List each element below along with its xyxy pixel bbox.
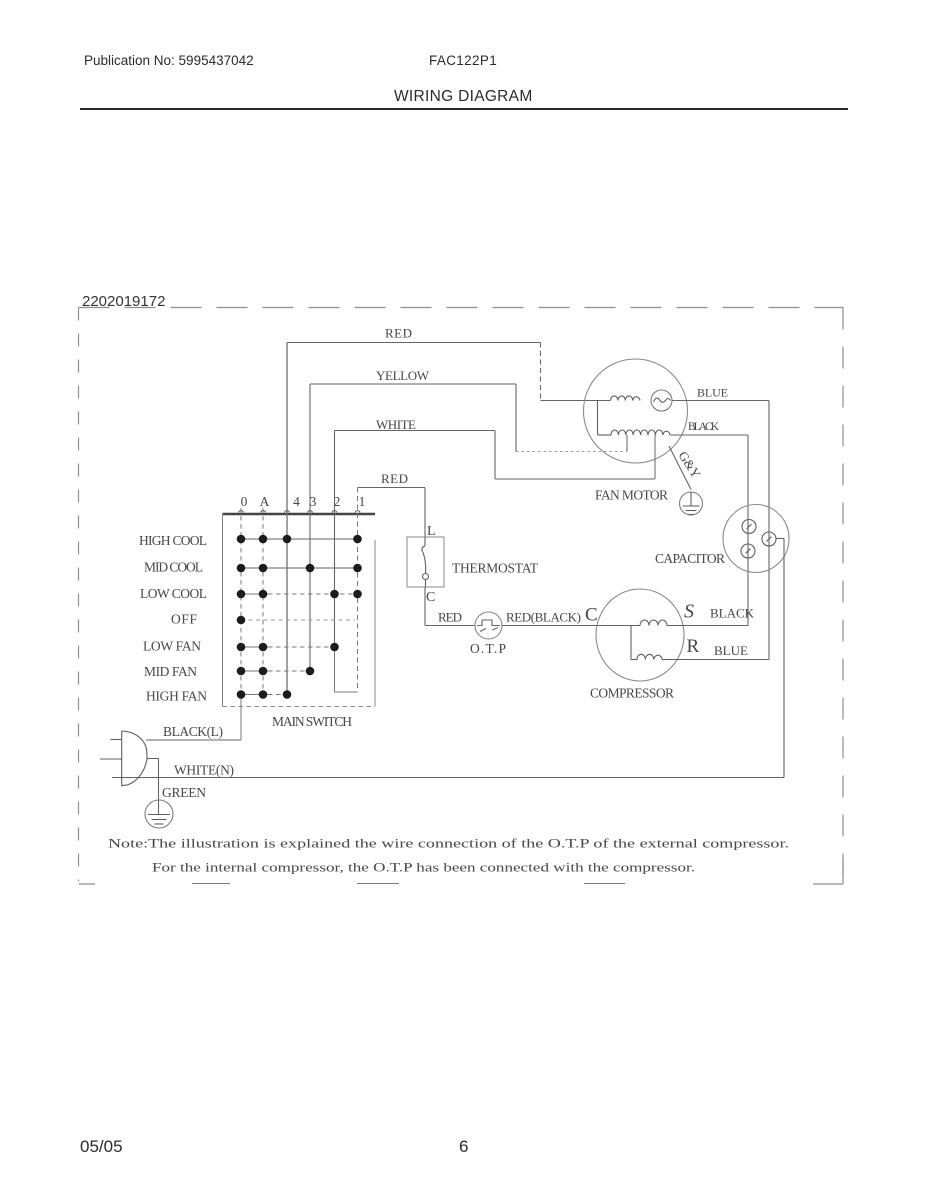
svg-text:GREEN: GREEN — [162, 785, 206, 800]
row label OFF — [171, 612, 197, 627]
svg-text:RED: RED — [385, 326, 412, 341]
row wire LOW FAN — [241, 646, 335, 648]
svg-text:S: S — [684, 601, 694, 623]
wire BLACK(L) plug to switch — [146, 739, 241, 741]
label FAN MOTOR — [595, 488, 668, 503]
fan motor mid-speed tap wire — [626, 435, 628, 452]
thermostat box — [407, 537, 444, 587]
row wire OFF — [241, 619, 355, 621]
switch contact dots — [237, 535, 362, 699]
supply earth ground — [145, 800, 173, 828]
compressor body — [596, 589, 684, 681]
svg-text:BLUE: BLUE — [697, 386, 728, 400]
switch column wire 0 — [240, 508, 242, 740]
label YELLOW — [376, 368, 430, 383]
label O.T.P — [470, 641, 506, 656]
wire compressor S BLACK to capacitor — [685, 435, 748, 626]
label WHITE — [376, 417, 416, 432]
main switch label — [272, 714, 352, 729]
row wire HIGH FAN — [241, 694, 287, 696]
label WHITE(N) — [174, 763, 234, 778]
svg-text:L: L — [427, 524, 436, 539]
thermostat terminal label C — [426, 590, 435, 605]
wire joining bottoms of columns 2 and 1 — [335, 647, 358, 692]
switch column wire 4 / RED riser — [286, 343, 288, 696]
note text line 2 — [152, 860, 695, 875]
wire fan BLUE to capacitor — [672, 400, 769, 402]
diagram dashed border top — [79, 307, 844, 309]
fan motor earth ground — [680, 492, 703, 515]
svg-text:BLUE: BLUE — [714, 643, 748, 658]
fan motor thermal protector — [651, 390, 672, 411]
header model number — [429, 53, 497, 68]
compressor terminal label R — [687, 636, 700, 657]
svg-text:FAN MOTOR: FAN MOTOR — [595, 488, 668, 503]
svg-text:LOW COOL: LOW COOL — [140, 586, 207, 601]
svg-text:C: C — [585, 605, 598, 626]
fan motor low-speed tap wire — [654, 435, 656, 479]
note underline O.T.P — [357, 883, 399, 885]
label BLUE (compressor R) — [714, 643, 748, 658]
wire RED (to fan motor common) — [287, 343, 611, 401]
svg-text:For the internal compressor, t: For the internal compressor, the O.T.P h… — [152, 860, 695, 875]
switch column wire A — [262, 508, 264, 695]
compressor windings — [631, 620, 685, 659]
svg-text:WHITE: WHITE — [376, 417, 416, 432]
svg-text:CAPACITOR: CAPACITOR — [655, 551, 725, 566]
column label 4 — [293, 494, 300, 509]
svg-text:0: 0 — [241, 494, 248, 509]
compressor terminal label S — [684, 601, 694, 623]
svg-text:LOW FAN: LOW FAN — [143, 639, 201, 654]
row label LOW COOL — [140, 586, 207, 601]
wire thermostat C to O.T.P (RED) — [425, 587, 476, 626]
wire neutral riser — [783, 539, 785, 778]
label BLACK(L) — [163, 724, 223, 739]
note underline internal — [192, 883, 230, 885]
svg-text:C: C — [426, 590, 435, 605]
part number 2202019172 — [82, 293, 165, 310]
svg-text:G&Y: G&Y — [675, 448, 704, 481]
label BLUE (fan) — [697, 386, 728, 400]
wire G&amp;Y fan earth lead — [669, 446, 691, 490]
row label MID COOL — [144, 560, 203, 575]
capacitor terminal (fan) — [742, 520, 756, 534]
svg-text:MAIN SWITCH: MAIN SWITCH — [272, 714, 352, 729]
svg-text:THERMOSTAT: THERMOSTAT — [452, 561, 539, 576]
label COMPRESSOR — [590, 686, 674, 701]
fan motor windings — [598, 396, 671, 435]
svg-text:MID COOL: MID COOL — [144, 560, 203, 575]
svg-text:RED(BLACK): RED(BLACK) — [506, 610, 581, 625]
svg-text:MID FAN: MID FAN — [144, 664, 197, 679]
svg-text:YELLOW: YELLOW — [376, 368, 430, 383]
header publication number — [84, 53, 254, 68]
wire GREEN earth lead — [158, 759, 160, 815]
svg-text:WHITE(N): WHITE(N) — [174, 763, 234, 778]
svg-text:BLACK: BLACK — [688, 421, 720, 433]
column label 3 — [310, 494, 317, 509]
thermostat terminal label L — [427, 524, 436, 539]
header rule — [80, 108, 848, 110]
note underline with — [584, 883, 625, 885]
switch contact hooks at column tops — [239, 511, 361, 513]
wire capacitor common to neutral riser — [776, 538, 784, 540]
svg-text:1: 1 — [359, 494, 366, 509]
svg-text:RED: RED — [438, 610, 462, 625]
capacitor terminal (herm) — [741, 544, 755, 558]
column label 0 — [241, 494, 248, 509]
row wire HIGH COOL — [241, 538, 358, 540]
wire fan BLACK to capacitor — [670, 434, 748, 436]
wire WHITE(N) neutral run — [112, 777, 784, 779]
label RED — [381, 471, 408, 486]
thermostat internal switch — [422, 537, 429, 587]
capacitor body — [723, 505, 789, 573]
label RED — [438, 610, 462, 625]
svg-text:BLACK(L): BLACK(L) — [163, 724, 223, 739]
label G&amp;Y — [675, 448, 704, 481]
row wire MID COOL — [241, 567, 358, 569]
column label 2 — [334, 494, 341, 509]
wire compressor R BLUE to capacitor — [685, 401, 769, 660]
label CAPACITOR — [655, 551, 725, 566]
column label A — [260, 494, 270, 509]
header title WIRING DIAGRAM — [394, 88, 533, 106]
svg-text:Note:The illustration is expla: Note:The illustration is explained the w… — [108, 836, 789, 851]
power plug — [100, 731, 159, 786]
switch column wire 1 / RED riser to thermostat — [357, 488, 359, 693]
overload protector O.T.P — [475, 612, 502, 639]
svg-text:HIGH FAN: HIGH FAN — [146, 689, 207, 704]
note text line 1 — [108, 836, 789, 851]
diagram dashed border right — [842, 308, 844, 882]
svg-text:R: R — [687, 636, 700, 657]
svg-text:COMPRESSOR: COMPRESSOR — [590, 686, 674, 701]
label BLACK (compressor S) — [710, 606, 755, 621]
row label HIGH COOL — [139, 533, 207, 548]
main switch box — [223, 514, 376, 707]
svg-text:RED: RED — [381, 471, 408, 486]
svg-text:4: 4 — [293, 494, 300, 509]
footer date — [80, 1137, 123, 1157]
label RED(BLACK) — [506, 610, 581, 625]
wire RED (switch 1 to thermostat L) — [358, 488, 426, 538]
label RED — [385, 326, 412, 341]
column label 1 — [359, 494, 366, 509]
footer page number — [459, 1137, 468, 1157]
svg-text:A: A — [260, 494, 270, 509]
diagram dashed border left — [78, 308, 80, 882]
svg-text:3: 3 — [310, 494, 317, 509]
capacitor terminal (common) — [762, 532, 776, 546]
svg-text:BLACK: BLACK — [710, 606, 755, 621]
wire WHITE (to fan motor low tap) — [335, 431, 656, 480]
diagram dashed border bottom — [79, 860, 844, 884]
fan motor body — [584, 359, 688, 463]
label BLACK (fan) — [688, 421, 720, 433]
row label MID FAN — [144, 664, 197, 679]
wire O.T.P to compressor C (RED(BLACK)) — [502, 625, 640, 627]
svg-text:O.T.P: O.T.P — [470, 641, 506, 656]
row label LOW FAN — [143, 639, 201, 654]
switch column wire 2 / WHITE riser — [334, 431, 336, 648]
svg-text:HIGH COOL: HIGH COOL — [139, 533, 207, 548]
wire YELLOW (to fan motor mid tap) — [310, 384, 627, 452]
row label HIGH FAN — [146, 689, 207, 704]
label THERMOSTAT — [452, 561, 539, 576]
row wire MID FAN — [241, 670, 310, 672]
row wire LOW COOL — [241, 593, 358, 595]
compressor terminal label C — [585, 605, 598, 626]
switch column wire 3 / YELLOW riser — [309, 384, 311, 671]
svg-text:OFF: OFF — [171, 612, 197, 627]
label GREEN — [162, 785, 206, 800]
